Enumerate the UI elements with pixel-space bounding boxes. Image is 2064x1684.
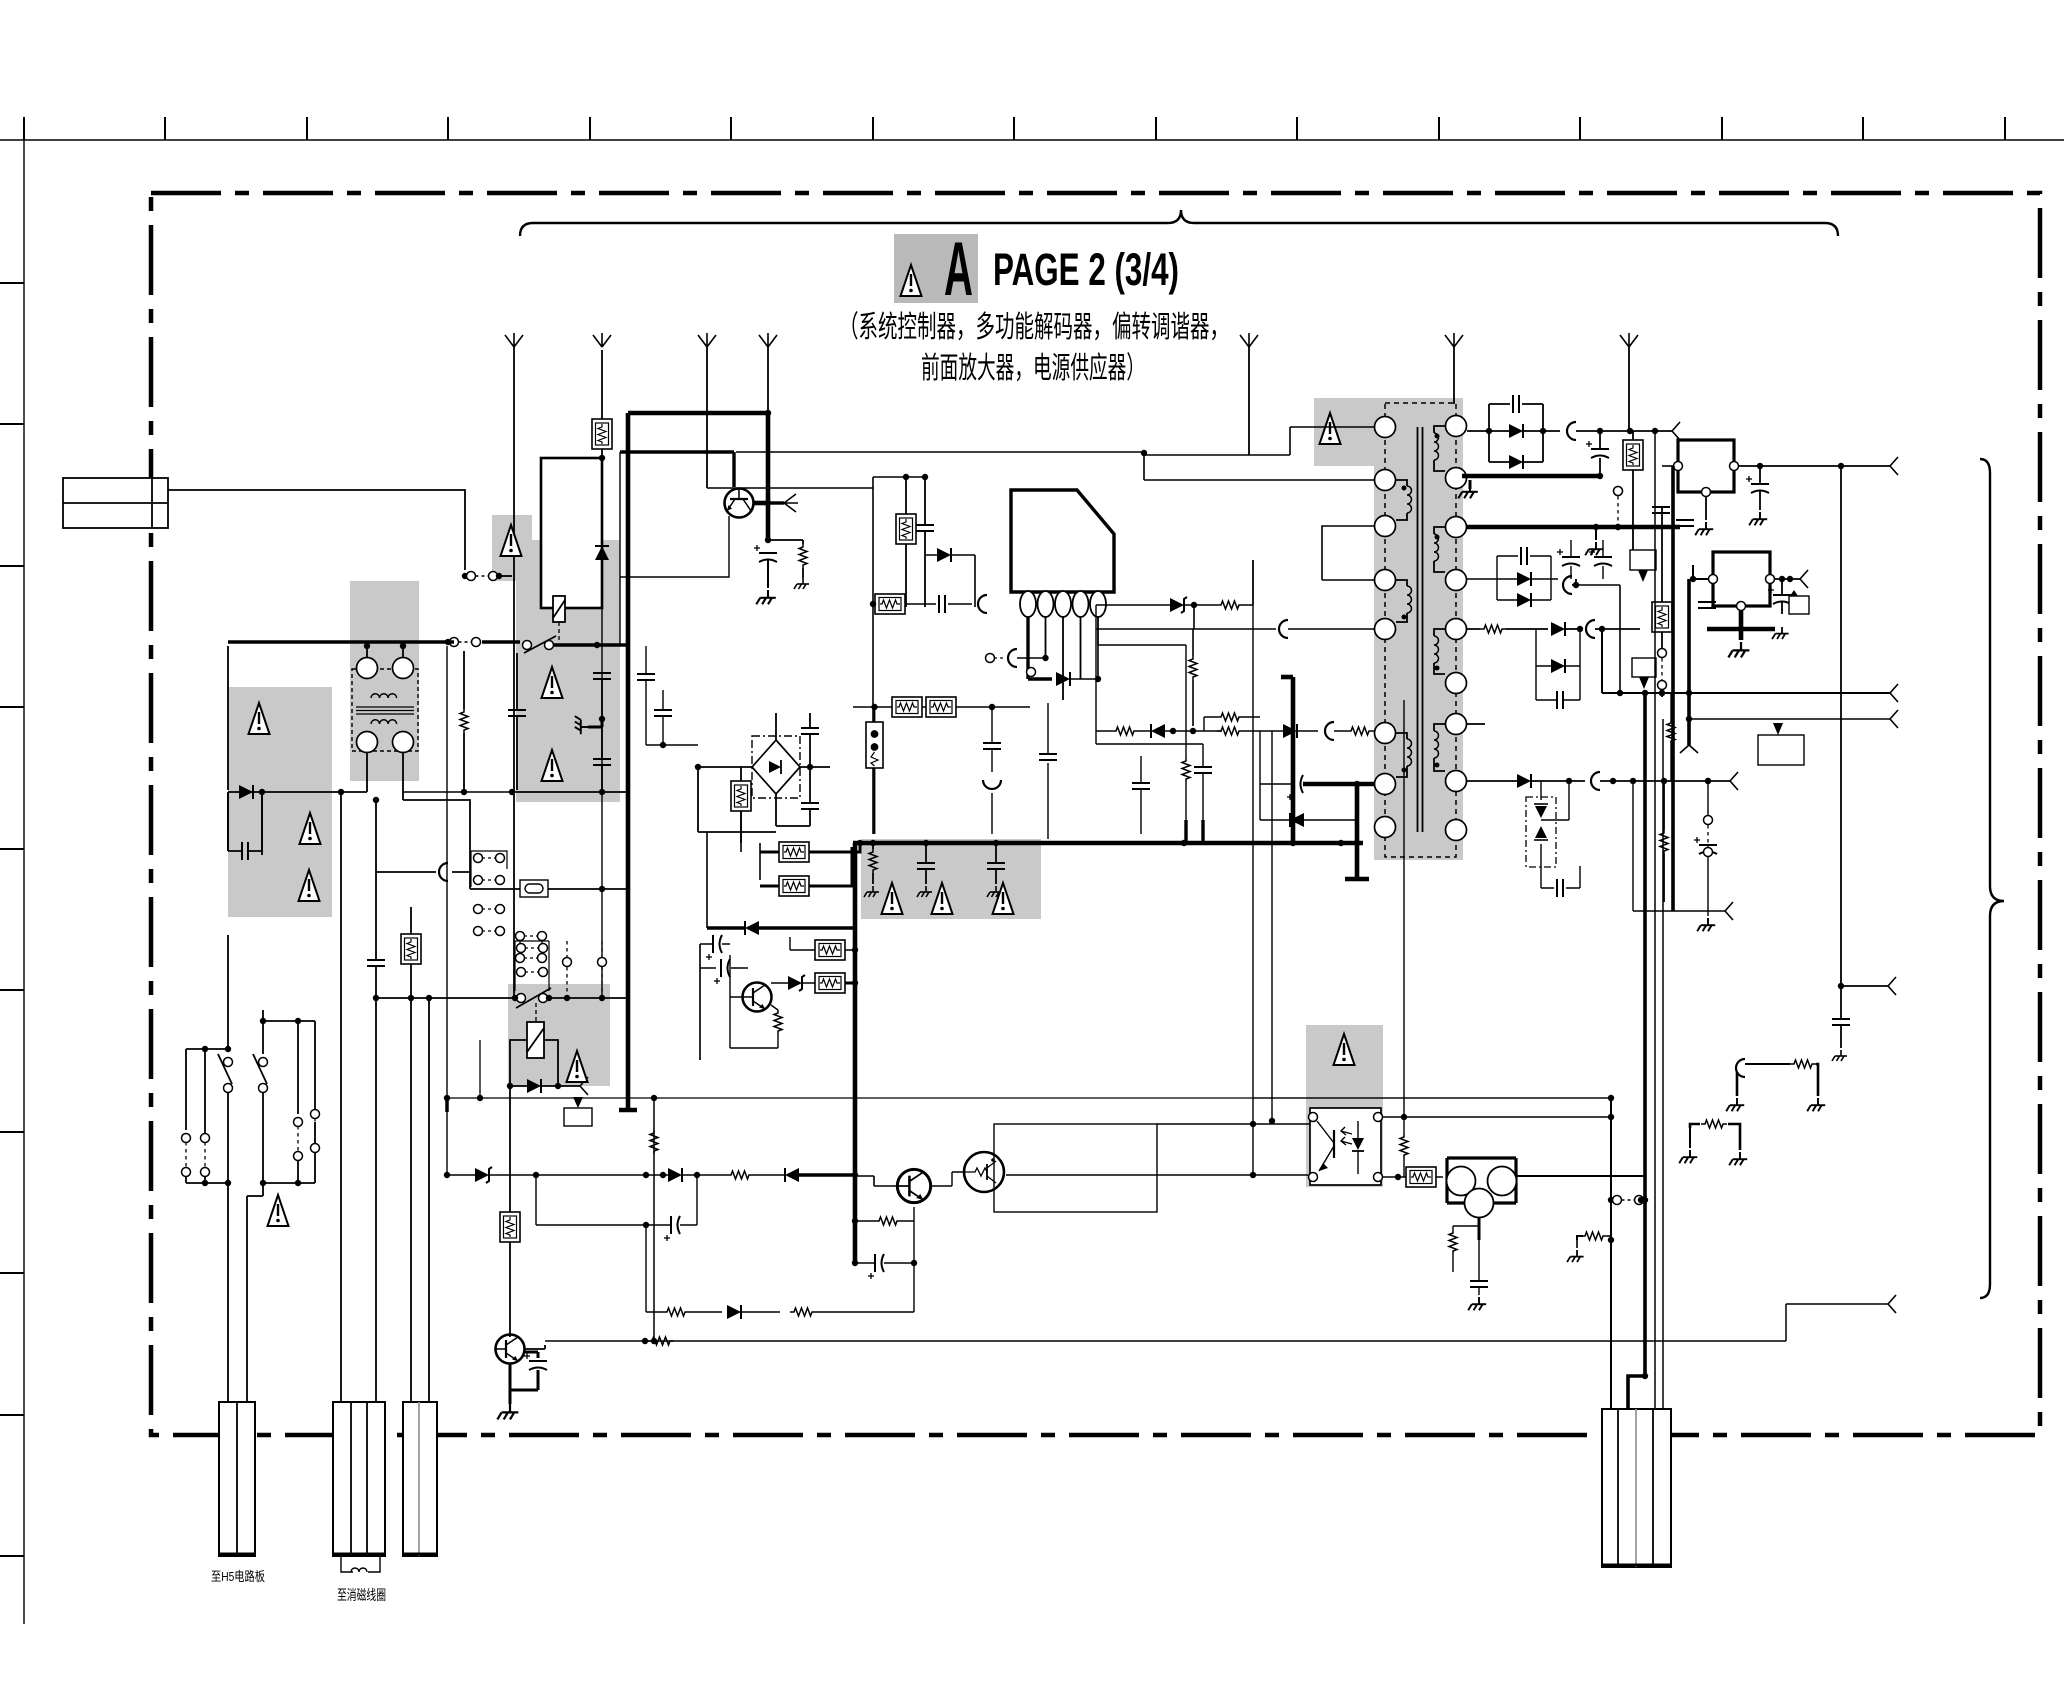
primary pin 2 [1375, 470, 1396, 491]
top rail wires [873, 476, 925, 478]
capacitor C801 [242, 842, 248, 860]
IC pin 5 [1090, 591, 1106, 617]
wire y1098 into lane [1254, 1097, 1611, 1099]
left cap2 to bus [1194, 767, 1212, 773]
opto bottom wires [1006, 1175, 1398, 1177]
resistor R831 below [1449, 1230, 1457, 1254]
primary snubber diode D808 [1170, 597, 1187, 613]
node relay top [599, 455, 605, 461]
thick drop to Q802 collector [766, 413, 771, 540]
node diode [259, 789, 265, 795]
diode D806 [937, 548, 951, 562]
reg1 gnd [1749, 512, 1767, 525]
transistor Q801 [496, 1335, 525, 1364]
warning triangle left1 [249, 703, 270, 734]
reg2 out cap [1768, 587, 1791, 604]
boxed resistor R821 vertical lane [1652, 602, 1672, 632]
bus y998 [376, 997, 515, 999]
bridge bottom cap C807 [801, 803, 819, 809]
antenna A5 [1240, 333, 1258, 347]
gray shaded region line-filter [350, 581, 419, 781]
row arc [1325, 722, 1334, 740]
resistor R824 row [727, 1171, 753, 1179]
lane x1272 [1271, 731, 1273, 1121]
gray zone cap1 [917, 863, 935, 869]
gnd x1841 [1832, 1050, 1847, 1061]
fork y693 [1890, 684, 1898, 702]
wire diode drop [601, 449, 603, 608]
Q803 emitter resistor [774, 1010, 782, 1034]
node bus x597 [594, 642, 600, 648]
cap C820 left [664, 1216, 680, 1241]
wire pin5 from snubber [1345, 628, 1374, 630]
diode D805 under bus [745, 921, 759, 935]
fork lane bottom [1725, 902, 1733, 920]
boxed resistor R806 [731, 781, 751, 811]
left live vertical [227, 646, 229, 790]
long line x1841 [1840, 466, 1842, 1017]
gray shaded region left (live area) [228, 687, 332, 917]
mains bus thick [228, 640, 520, 643]
opto top wire [1157, 1117, 1611, 1124]
cap stubs [228, 792, 262, 851]
svg-text:（系统控制器，多功能解码器，偏转调谐器，: （系统控制器，多功能解码器，偏转调谐器， [839, 311, 1229, 344]
lane x1663 [1662, 719, 1664, 1409]
boxed resistor R811 [875, 594, 905, 614]
transistor Q803 [743, 983, 772, 1012]
antenna A4 [759, 333, 777, 347]
secondary winding 2 [1434, 527, 1445, 534]
reg2 output [1775, 578, 1800, 580]
cap C818 left [706, 935, 722, 960]
resistor R801 on drop [460, 709, 468, 733]
node after P801 [496, 573, 502, 579]
cap relay col2 [593, 759, 611, 765]
primary pin 7 [1375, 774, 1396, 795]
reg2 gnd bottom [1728, 642, 1749, 657]
wire y787: zener pair block [1526, 797, 1556, 867]
warning triangle G3a [501, 525, 522, 556]
diode D801 [239, 785, 253, 799]
warning triangle relay col 1 [542, 667, 563, 698]
relay coil loop [510, 1040, 558, 1086]
svg-text:至消磁线圈: 至消磁线圈 [337, 1587, 386, 1603]
bridge rectifier D804 dash-dot box [752, 736, 800, 798]
loop diode D810 [1290, 813, 1304, 827]
gray zone resistor to gnd [869, 849, 877, 873]
IC feed resistor box R810 [896, 514, 916, 544]
gray shaded region opto-coupler [1306, 1025, 1383, 1187]
IC801 body [1011, 490, 1114, 592]
cap C811 [1039, 754, 1057, 760]
boxed resistor R808 [779, 876, 809, 896]
primary winding 1 [1396, 480, 1407, 486]
snubber lower resistor R816 [1189, 656, 1197, 680]
out2 connector circle [1614, 487, 1623, 496]
gray shaded region relay/switch column [516, 540, 620, 802]
wire above boxed resistor [601, 350, 603, 419]
relay RY801 drive loop [541, 458, 602, 608]
power switch S802b [262, 1010, 264, 1054]
connector CN602 [333, 1402, 385, 1556]
regulator IC802 [1678, 440, 1734, 492]
arc out3 [1563, 576, 1572, 594]
Q803 collector diode D817 [788, 975, 805, 991]
snubber resistor R815 [1217, 601, 1243, 609]
wire switch to connector [228, 1183, 263, 1402]
row resistors R817 R818 [1217, 713, 1243, 721]
lane x1645 thick [1643, 693, 1647, 1376]
out2 gnd [1595, 527, 1597, 540]
wire Q801 base [524, 1345, 545, 1349]
antenna A4 stem [767, 347, 769, 413]
thick vertical bus x628 [626, 413, 631, 1110]
wire to relay col [499, 575, 512, 577]
thick gnd rail y476 [1462, 474, 1600, 479]
secondary pin 2 [1446, 468, 1467, 489]
cap x1841 [1832, 1019, 1850, 1025]
primary pin 8 [1375, 817, 1396, 838]
title block gray box [894, 234, 978, 303]
bottom live bus [228, 792, 262, 855]
Q802 emitter return [620, 516, 729, 577]
relay RY802 coil [527, 1022, 544, 1058]
svg-text:至H5电路板: 至H5电路板 [211, 1569, 265, 1584]
wires into CN602 [341, 792, 376, 1402]
IC pin1 wire [1026, 617, 1029, 679]
title warning triangle [901, 265, 922, 296]
choke pin 4 [393, 732, 414, 753]
primary left caps [1132, 783, 1150, 789]
resistor R805 [799, 544, 807, 568]
arc out1 [1567, 422, 1576, 440]
choke bottom stubs [367, 752, 403, 800]
regulator IC803 [1713, 552, 1770, 606]
thick IC drive rail x1293 [1291, 677, 1296, 843]
cap C816 [1557, 691, 1563, 709]
wire arc [376, 871, 471, 873]
IC pin 3 [1055, 591, 1071, 617]
IC feed cap [916, 525, 934, 531]
diode D803 [527, 1079, 541, 1093]
S802a aux contacts [182, 1134, 191, 1143]
boxed resistor R804 [500, 1212, 520, 1242]
right brace [1980, 459, 2004, 1298]
cap row under out2 [1557, 549, 1580, 566]
warning triangle left2 [300, 813, 321, 844]
sec out 1: cap over diode pair [1513, 395, 1519, 413]
ground relay col [588, 719, 602, 727]
small box reg2 [1789, 596, 1809, 614]
choke top stubs [367, 646, 403, 658]
boxed resistor R802 [592, 419, 612, 449]
secondary pin 5 [1446, 619, 1467, 640]
wire IC-left loop [707, 487, 873, 489]
cap C813 pol [1586, 441, 1609, 458]
arc link [978, 595, 987, 613]
wire relay col down [601, 679, 603, 792]
bridge top cap C806 [801, 728, 819, 734]
contact block CB4 [517, 944, 526, 953]
IC pin wires [1046, 617, 1099, 700]
diode D821 row [668, 1168, 682, 1182]
thick bus end stub [619, 1108, 637, 1113]
cap C808 [714, 959, 730, 984]
boxed resistor R807 feeding bus [779, 842, 809, 862]
long wire y1341 [545, 1304, 1888, 1341]
node Q802 below [765, 500, 771, 506]
boxed resistor R823 top [815, 940, 845, 960]
fork to supply [580, 1077, 588, 1095]
choke pin 2 [393, 658, 414, 679]
thick base bus y452 [620, 452, 734, 487]
transistor Q805 resistor-input [964, 1152, 1004, 1192]
secondary winding 4 [1434, 724, 1445, 731]
connector CN603 [403, 1402, 437, 1556]
emitter cap C804 [524, 1353, 547, 1370]
primary power row y731 [1112, 727, 1138, 735]
cap C805 polarized [754, 545, 777, 562]
long wire y719 [1689, 718, 1890, 720]
arc below C810 [983, 780, 1001, 789]
warning triangle transformer [1320, 413, 1341, 444]
bridge wires [698, 713, 830, 826]
cap wire [516, 653, 518, 790]
start transistor Q802 [725, 489, 754, 518]
secondary pin 6 [1446, 673, 1467, 694]
fork lane x1689 [1680, 745, 1698, 753]
out5 diode row y781 [1517, 774, 1531, 788]
cap C803 [637, 674, 655, 680]
arrow mark [573, 1097, 583, 1108]
board outline dash-dot border [151, 193, 2040, 1435]
gnd-res-gnd motif 2 [1690, 1124, 1700, 1128]
warning triangle bus2 [932, 883, 953, 914]
secondary pin 7 [1446, 714, 1467, 735]
node y792 [509, 789, 515, 795]
cap C821 below [1470, 1281, 1488, 1287]
U805 out wire [1516, 1175, 1645, 1177]
Q802 collector wire [753, 501, 768, 506]
ruler left line [23, 140, 25, 1624]
thick lane x1689 [1687, 579, 1691, 745]
lane dashes connector [1658, 649, 1667, 658]
wire pin3 loop [1322, 526, 1374, 580]
Q802 emitter fork [784, 494, 798, 512]
zener D818 row y1175 [475, 1167, 492, 1183]
choke pin 1 [357, 658, 378, 679]
fork y1341 [1888, 1295, 1896, 1313]
diode D811 [1509, 424, 1523, 438]
primary pin 1 [1375, 417, 1396, 438]
resistor across opto R829 [1400, 1134, 1408, 1158]
transformer T802 dashed box [1385, 403, 1456, 857]
reg2 input [1693, 565, 1708, 579]
bridge inner diode [769, 761, 781, 773]
row diode D815 [1551, 622, 1565, 636]
antenna A2 [593, 333, 611, 347]
ground Q801 [497, 1404, 518, 1419]
long lane x447 [446, 646, 448, 1175]
gray zone cap2 [987, 863, 1005, 869]
thick drive wire pin [1028, 677, 1052, 680]
label box 2 [1632, 658, 1656, 677]
antenna A1 [505, 333, 523, 347]
lane x1253 [1252, 560, 1254, 1175]
warning triangle bus3 [993, 883, 1014, 914]
transistor Q804 [897, 1169, 930, 1202]
bridge lower rail [776, 825, 810, 827]
antenna A6 stem [1453, 347, 1455, 404]
cap on CN602 wire [367, 960, 385, 966]
gnd lane x1708 [1707, 902, 1709, 916]
thick stub below pin8 [1345, 784, 1369, 879]
thick lane x1673 [1671, 466, 1675, 911]
wire y744 [1096, 743, 1203, 745]
choke winding top [371, 694, 397, 698]
arc on bus y858 [439, 863, 448, 881]
bottom row resistor R827 [790, 1308, 816, 1316]
antenna A6 [1445, 333, 1463, 347]
gray shaded region hot ground bus [861, 839, 1041, 919]
warning triangle relay col 2 [542, 750, 563, 781]
bottom row resistor R826 [663, 1308, 689, 1316]
cap over diode pair 2 [1521, 547, 1527, 565]
electro cap lane x1708 [1694, 837, 1717, 854]
boxed resistor R820 [1623, 440, 1643, 470]
secondary winding 1 [1434, 426, 1445, 433]
boxed resistor R803 [401, 934, 421, 964]
node choke top [364, 643, 370, 649]
ground C805 [756, 590, 776, 604]
connector pair P802 [450, 638, 481, 647]
thin lane x620 [619, 452, 621, 646]
ruler left ticks [0, 283, 24, 1556]
primary pin 5 [1375, 619, 1396, 640]
lower diode D816 [1551, 659, 1565, 673]
wires into CN603 [411, 998, 429, 1402]
IC pin 4 [1073, 591, 1089, 617]
cap C817 [1557, 879, 1563, 897]
cap C804b on relay lane [654, 710, 672, 716]
U805 bottom wire [1478, 1217, 1481, 1240]
thick stub on lane x447 [445, 1098, 449, 1112]
relay coil [553, 596, 565, 622]
side contacts [563, 958, 572, 967]
gray shaded region transformer [1374, 398, 1463, 860]
fork y719 [1890, 710, 1898, 728]
boxed resistor R830 [1406, 1167, 1436, 1187]
sec mid resistor row y629 [1480, 625, 1506, 633]
reg1 input wire [1662, 465, 1673, 467]
small label box right [1758, 735, 1804, 765]
thick hot bus y843 [853, 841, 1363, 846]
connector pair P801 [467, 572, 498, 581]
warning triangle opto [1334, 1034, 1355, 1065]
secondary pin 3 [1446, 517, 1467, 538]
node top bus [765, 410, 771, 416]
fork reg1 [1890, 457, 1898, 475]
lane x654 [653, 1098, 655, 1341]
diode D814 [1517, 593, 1531, 607]
fork out1 [1655, 430, 1672, 432]
diode D807 [1056, 672, 1070, 686]
secondary winding 3 [1434, 629, 1445, 636]
sec out4: diode from pin7 [1467, 723, 1485, 725]
fork out5 [1730, 772, 1738, 790]
node fuse row [599, 886, 605, 892]
antenna A5 stem [1248, 347, 1250, 455]
wire below diode [261, 792, 263, 851]
lane x1611 [1610, 1098, 1612, 1409]
S802b right branch [263, 1021, 315, 1114]
neutral lower wire [403, 800, 470, 889]
resistor lane x1664 [1660, 830, 1668, 854]
reg1 bottom pin cap [1705, 497, 1707, 520]
connector CN601 [219, 1402, 255, 1556]
thick elbow into CN604 [1628, 1376, 1645, 1409]
degauss coil [341, 1556, 380, 1572]
secondary pin 4 [1446, 570, 1467, 591]
resistor R832 on lane x654 [650, 1130, 658, 1154]
wire relay to transistor [509, 1086, 511, 1198]
line filter choke T801 dashed box [352, 669, 418, 751]
antenna A1 stem [513, 347, 515, 998]
lane x1655 long [1654, 431, 1656, 1409]
lower mains bus y792 [403, 791, 512, 793]
cap relay col1 [593, 673, 611, 679]
primary pin 4 [1375, 570, 1396, 591]
connector pair lane [1704, 816, 1713, 825]
bottom row diode D820 [727, 1305, 741, 1319]
Q804 bias resistor R825 [875, 1217, 901, 1225]
choke core [356, 707, 414, 714]
antenna A7 stem [1628, 347, 1630, 431]
gray shaded region transformer notch [1314, 398, 1376, 466]
thick top bus y413 [628, 411, 768, 416]
svg-text:A: A [944, 227, 973, 312]
ground rail left [1469, 480, 1472, 489]
reg2 gnd right [1772, 627, 1789, 639]
relay dashed link [558, 622, 560, 643]
lane x602 down [601, 608, 603, 998]
gnd U805 [1468, 1297, 1486, 1310]
node x1841 [1838, 983, 1844, 989]
opto coupler IC804 [1309, 1108, 1383, 1185]
fuse F801 [520, 880, 548, 897]
wire fuse row [470, 888, 628, 890]
ruler top line [0, 139, 2064, 141]
row resistor R819 [1347, 727, 1373, 735]
reg1 output wire [1739, 465, 1890, 467]
node N [445, 639, 451, 645]
svg-text:前面放大器，电源供应器）: 前面放大器，电源供应器） [921, 352, 1145, 385]
feedback loop rectangle [994, 1124, 1157, 1212]
connector CN604 [1602, 1409, 1671, 1567]
secondary pin 1 [1446, 416, 1467, 437]
lane x1404 [1403, 700, 1405, 1117]
lane x1096 [1095, 605, 1097, 744]
Q803 base wire [730, 955, 778, 1048]
cap C810 [983, 743, 1001, 749]
out3 wire [1576, 585, 1620, 693]
contact block CB2 [474, 905, 505, 936]
resistor zig x1671 [1667, 720, 1675, 744]
switch S801 [523, 641, 532, 650]
out1 wire to reg [1600, 430, 1655, 432]
long wire y693 [1602, 629, 1890, 693]
reg2 bottom thick [1707, 627, 1775, 632]
